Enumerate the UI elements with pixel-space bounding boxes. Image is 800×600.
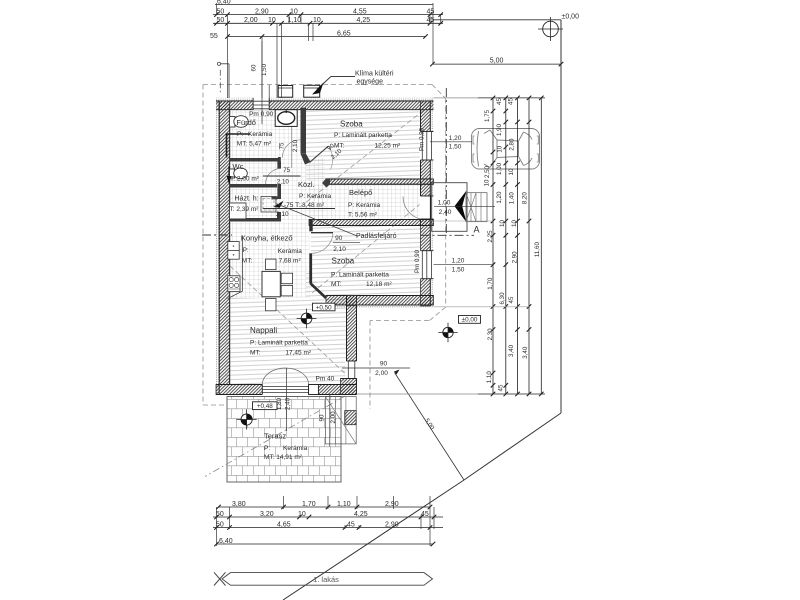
svg-text:MT:: MT: bbox=[331, 281, 342, 288]
svg-text:90: 90 bbox=[380, 361, 388, 368]
terrace paving bbox=[227, 397, 341, 483]
room floor Furdo tile bbox=[226, 108, 301, 159]
gray connector lines right chain bbox=[434, 97, 479, 99]
kitchen fridge and sink unit bbox=[228, 242, 239, 251]
room floor Wc tile bbox=[226, 162, 278, 185]
top left L-shaped leader with circle bbox=[221, 63, 230, 65]
entrance steps bbox=[466, 193, 487, 222]
svg-text:2,40: 2,40 bbox=[439, 209, 452, 216]
svg-text:2,10: 2,10 bbox=[333, 246, 346, 253]
bath block right wall segment hazt bbox=[277, 184, 281, 199]
padlasfeljaro arrowhead at hazt door bbox=[274, 201, 284, 208]
right dim chain verticals bbox=[492, 98, 494, 394]
svg-text:11,60: 11,60 bbox=[534, 242, 541, 258]
svg-text:2,90: 2,90 bbox=[511, 251, 518, 264]
svg-text:MT:: MT: bbox=[334, 143, 345, 150]
section line A left stub bbox=[202, 234, 232, 236]
svg-text:Klíma kültéri: Klíma kültéri bbox=[355, 71, 394, 78]
svg-text:Pm 0,90: Pm 0,90 bbox=[414, 249, 421, 273]
szoba2 door arc bbox=[312, 234, 334, 254]
elevation box +0,48 bbox=[253, 402, 278, 410]
svg-text:10: 10 bbox=[508, 168, 515, 175]
svg-text:Fürdő: Fürdő bbox=[236, 118, 256, 127]
dining table bbox=[262, 271, 280, 296]
right wall insulation dotted bbox=[430, 98, 433, 306]
wall belepo bottom / kozl bottom bbox=[309, 220, 434, 226]
svg-text:17,45 m²: 17,45 m² bbox=[285, 349, 311, 356]
szoba1 door jamb flare bbox=[301, 154, 311, 165]
plot boundary diagonal 2 bbox=[283, 480, 464, 600]
eaves dashed bottom-left stub bbox=[203, 404, 226, 406]
svg-text:1,75: 1,75 bbox=[484, 109, 491, 122]
svg-text:1,40: 1,40 bbox=[509, 192, 516, 205]
wc door arc bbox=[266, 169, 282, 185]
nappali bottom wall masonry bbox=[216, 385, 357, 395]
svg-text:50: 50 bbox=[217, 17, 225, 24]
szoba2 door leaf horizontal bbox=[311, 232, 333, 234]
bottom row1 extension ticks up bbox=[283, 496, 285, 509]
bottom dim row2 bbox=[213, 516, 443, 518]
svg-text:2,00: 2,00 bbox=[375, 370, 388, 377]
svg-text:1,70: 1,70 bbox=[487, 277, 494, 290]
svg-text:MT: 5,47 m²: MT: 5,47 m² bbox=[237, 141, 272, 148]
svg-text:P: Laminált parketta: P: Laminált parketta bbox=[334, 132, 392, 139]
wall furdo-szoba1 bbox=[301, 108, 307, 154]
svg-text:1,20: 1,20 bbox=[496, 191, 503, 204]
svg-text:P:: P: bbox=[264, 445, 270, 452]
svg-text:45: 45 bbox=[347, 521, 355, 528]
room floor Szoba2 parquet bbox=[311, 226, 421, 296]
svg-text:45: 45 bbox=[508, 296, 515, 303]
svg-text:MT:: MT: bbox=[250, 349, 261, 356]
kitchen counter edge bbox=[228, 236, 243, 299]
hazt washing machine dashed bbox=[261, 197, 276, 213]
bottom dim row1 bbox=[218, 506, 430, 508]
klima outdoor units bbox=[278, 86, 293, 98]
svg-text:Házt. h:: Házt. h: bbox=[235, 196, 259, 203]
szoba1 window glyph bbox=[421, 131, 434, 133]
svg-text:2,90: 2,90 bbox=[255, 8, 269, 15]
section line A vertical bbox=[445, 88, 447, 235]
svg-text:6,65: 6,65 bbox=[337, 31, 351, 38]
svg-text:4,65: 4,65 bbox=[277, 521, 291, 528]
svg-text:5,00: 5,00 bbox=[490, 57, 504, 64]
svg-text:±0,00: ±0,00 bbox=[462, 317, 478, 324]
chair top bbox=[266, 259, 277, 270]
eaves dashed bottom of szoba2 bbox=[370, 320, 429, 322]
svg-text:1,80: 1,80 bbox=[276, 397, 283, 410]
svg-text:Nappali: Nappali bbox=[250, 326, 277, 335]
bottom dim row3 bbox=[213, 527, 443, 529]
svg-text:12,25 m²: 12,25 m² bbox=[375, 143, 401, 150]
szoba2 window gap in right wall bbox=[420, 251, 435, 279]
eaves dashed chamfer top-right bbox=[432, 85, 446, 99]
svg-text:1,10: 1,10 bbox=[337, 501, 351, 508]
room floor Belepo tile bbox=[309, 183, 421, 220]
svg-text:±0,00: ±0,00 bbox=[562, 14, 580, 21]
svg-text:75: 75 bbox=[283, 167, 290, 174]
top dim row1 bbox=[213, 14, 443, 16]
top wall insulation dotted strip bbox=[216, 98, 434, 101]
chair right upper bbox=[281, 273, 292, 284]
furdo door jamb end cap bbox=[278, 157, 281, 166]
furdo bathtub outline bbox=[227, 134, 251, 158]
elevation marker plusminus 0,00 bbox=[443, 327, 453, 337]
svg-text:Pm 0,90: Pm 0,90 bbox=[249, 111, 274, 118]
svg-text:3,40: 3,40 bbox=[508, 344, 515, 357]
svg-text:2,30: 2,30 bbox=[487, 328, 494, 341]
svg-text:2,25: 2,25 bbox=[487, 230, 494, 243]
car top view bbox=[472, 129, 540, 170]
svg-text:Konyha, étkező: Konyha, étkező bbox=[241, 233, 293, 242]
svg-text:1,70: 1,70 bbox=[302, 501, 316, 508]
french door leaves arcs bbox=[262, 368, 285, 385]
svg-text:2,10: 2,10 bbox=[292, 139, 299, 152]
svg-text:Kerámia: Kerámia bbox=[278, 248, 303, 255]
plot boundary vertical right bbox=[560, 20, 562, 413]
svg-text:Wc: Wc bbox=[233, 162, 244, 171]
svg-text:55: 55 bbox=[210, 33, 218, 40]
svg-text:10: 10 bbox=[313, 17, 321, 24]
left wall masonry bbox=[219, 101, 230, 385]
svg-text:4,25: 4,25 bbox=[357, 17, 371, 24]
bottom dim row4 6,40 bbox=[217, 543, 434, 545]
room floor Szoba1 parquet bbox=[306, 108, 421, 180]
svg-text:10: 10 bbox=[496, 145, 503, 152]
right chain ticks bbox=[491, 96, 496, 101]
SE steps hatched block bbox=[345, 411, 357, 425]
wall hazt bottom bbox=[230, 218, 277, 222]
svg-text:2,00: 2,00 bbox=[330, 411, 337, 424]
svg-text:P:: P: bbox=[243, 247, 249, 254]
svg-text:-75 T: 3,48 m²: -75 T: 3,48 m² bbox=[284, 202, 325, 209]
top wall window gap bbox=[253, 98, 269, 111]
svg-text:2,80: 2,80 bbox=[509, 138, 516, 151]
svg-text:45: 45 bbox=[497, 384, 504, 391]
svg-text:Pm 0,90: Pm 0,90 bbox=[419, 127, 426, 151]
top wall window glyph bbox=[252, 98, 254, 110]
wall hazt bottom right jamb bbox=[277, 212, 281, 222]
svg-text:Közl.: Közl. bbox=[298, 180, 315, 189]
chair right lower bbox=[281, 285, 292, 296]
svg-text:8,20: 8,20 bbox=[521, 192, 528, 205]
szoba2 bottom wall insulation dotted bbox=[330, 305, 434, 308]
entrance door gap in right wall bbox=[420, 196, 435, 219]
wc door dim line bbox=[263, 175, 301, 177]
furdo washbasin cabinet bbox=[275, 110, 297, 127]
svg-text:90: 90 bbox=[335, 235, 343, 242]
svg-text:2,40: 2,40 bbox=[285, 397, 292, 410]
svg-text:50: 50 bbox=[217, 8, 225, 15]
terrace dash-dot diagonal bbox=[205, 396, 345, 477]
right dim chain bottom tick row bbox=[478, 393, 545, 395]
wall furdo-wc bbox=[230, 158, 279, 162]
svg-text:T: 2,39 m²: T: 2,39 m² bbox=[230, 206, 260, 213]
furdo door arc bbox=[282, 140, 300, 158]
svg-text:2,10: 2,10 bbox=[276, 211, 289, 218]
left wall insulation dotted strip bbox=[216, 101, 219, 395]
svg-text:2,00: 2,00 bbox=[244, 17, 258, 24]
white pier in bottom wall bbox=[309, 385, 319, 395]
hazt door dim line bbox=[263, 208, 335, 210]
svg-text:Szoba: Szoba bbox=[340, 120, 363, 129]
top dim row3 bbox=[228, 36, 426, 38]
nappali SE corner wall block bbox=[341, 379, 357, 395]
SE steps outline bbox=[325, 397, 356, 444]
svg-text:MT: 14,91 m²: MT: 14,91 m² bbox=[264, 454, 303, 461]
room floor Nappali parquet bbox=[226, 268, 347, 385]
svg-text:10: 10 bbox=[268, 17, 276, 24]
kitchen stove bbox=[228, 276, 240, 292]
szoba2 left wall segment below door bbox=[309, 253, 312, 283]
top dim row2 bbox=[213, 22, 443, 24]
svg-text:12,18 m²: 12,18 m² bbox=[366, 281, 392, 288]
svg-text:2,90: 2,90 bbox=[385, 521, 399, 528]
room floor Kozl tile bbox=[277, 159, 325, 221]
plot line top bbox=[432, 19, 561, 21]
svg-text:10: 10 bbox=[484, 179, 491, 186]
svg-text:7,68 m²: 7,68 m² bbox=[279, 257, 302, 264]
svg-text:Kerámia: Kerámia bbox=[248, 131, 273, 138]
french door gap in bottom wall bbox=[262, 384, 308, 396]
szoba2 window glyph bbox=[421, 250, 434, 252]
nappali back door gap bbox=[346, 361, 358, 379]
roof dashed diagonal szoba1 bbox=[300, 103, 433, 207]
section line A horizontal bbox=[421, 234, 475, 236]
corner block szoba2 wall to nappali wall bbox=[347, 296, 357, 306]
svg-text:1,10: 1,10 bbox=[288, 17, 302, 24]
right wall masonry upper bbox=[421, 101, 431, 306]
eaves dashed right of nappali bbox=[369, 321, 371, 410]
wc toilet bbox=[230, 169, 235, 178]
svg-text:+0,48: +0,48 bbox=[257, 403, 273, 410]
svg-text:T: 2,00 m²: T: 2,00 m² bbox=[230, 175, 260, 182]
svg-text:Terasz: Terasz bbox=[264, 431, 286, 440]
svg-text:2,10: 2,10 bbox=[277, 178, 290, 185]
svg-text:10: 10 bbox=[290, 8, 298, 15]
svg-text:A: A bbox=[474, 225, 480, 235]
hazt cupboard bbox=[230, 203, 247, 219]
wall kozl-belepo flared jamb bbox=[322, 179, 330, 188]
wall wc-hazt bbox=[230, 184, 277, 188]
svg-text:Szoba: Szoba bbox=[332, 257, 355, 266]
down arrow at wc wall bbox=[228, 166, 230, 177]
roof dashed diagonal nappali bbox=[230, 266, 352, 380]
right dim chain top tick row bbox=[478, 97, 545, 99]
svg-text:+0,50: +0,50 bbox=[316, 304, 332, 311]
svg-text:1,90: 1,90 bbox=[496, 123, 503, 136]
wall kozl-belepo bbox=[327, 179, 434, 184]
svg-text:3,40: 3,40 bbox=[522, 346, 529, 359]
svg-text:P: Kerámia: P: Kerámia bbox=[348, 202, 381, 209]
svg-text:P: Laminált parketta: P: Laminált parketta bbox=[250, 339, 308, 346]
chair bottom bbox=[266, 299, 277, 311]
svg-text:T: 5,56 m²: T: 5,56 m² bbox=[348, 211, 378, 218]
hazt wall end cap bbox=[272, 196, 278, 199]
dim 5,00 line bbox=[432, 63, 561, 65]
eaves dashed right bbox=[445, 99, 447, 308]
svg-text:2,50: 2,50 bbox=[484, 165, 491, 178]
szoba1 door leaf diagonal bbox=[310, 146, 329, 163]
svg-text:P: Laminált parketta: P: Laminált parketta bbox=[331, 272, 389, 279]
svg-text:60: 60 bbox=[251, 64, 258, 71]
furdo door extension line bbox=[291, 127, 293, 169]
belepo bottom wall left jamb bbox=[309, 220, 312, 232]
nappali right wall masonry bbox=[347, 296, 357, 362]
svg-text:90: 90 bbox=[319, 414, 326, 421]
svg-text:50: 50 bbox=[216, 511, 224, 518]
left dash-dot stub bbox=[219, 70, 221, 94]
room floor Hazt tile bbox=[226, 188, 278, 219]
top wall masonry bbox=[216, 101, 434, 110]
svg-text:1,20: 1,20 bbox=[449, 135, 462, 142]
svg-text:1,20: 1,20 bbox=[452, 258, 465, 265]
svg-text:45: 45 bbox=[421, 511, 429, 518]
svg-text:10: 10 bbox=[298, 511, 306, 518]
svg-text:6,30: 6,30 bbox=[499, 292, 506, 305]
svg-text:3,80: 3,80 bbox=[232, 501, 246, 508]
svg-text:Kerámia: Kerámia bbox=[283, 445, 308, 452]
svg-text:10: 10 bbox=[499, 220, 506, 227]
elevation box 0,00 bbox=[459, 316, 481, 324]
svg-text:45: 45 bbox=[508, 98, 515, 105]
bath block right wall segment wc bbox=[277, 162, 281, 169]
svg-text:1,50: 1,50 bbox=[449, 143, 462, 150]
svg-text:MT:: MT: bbox=[242, 257, 253, 264]
svg-text:50: 50 bbox=[216, 521, 224, 528]
entrance big black arrow bbox=[455, 191, 467, 223]
svg-text:Belépő: Belépő bbox=[349, 188, 372, 197]
banner X mark bbox=[214, 572, 226, 585]
plot boundary diagonal 1 bbox=[464, 413, 561, 480]
top dims extension lines bbox=[216, 3, 218, 15]
svg-text:4,55: 4,55 bbox=[353, 8, 367, 15]
eaves dashed chamfer south-east bbox=[429, 307, 446, 321]
entrance porch outline bbox=[432, 183, 467, 232]
room floor Konyha tile bbox=[226, 222, 310, 298]
top dim row 6,40 partial bbox=[215, 4, 433, 6]
svg-text:1,50: 1,50 bbox=[452, 267, 465, 274]
bottom extension verticals bbox=[216, 507, 218, 546]
elevation marker nappali bbox=[301, 313, 312, 324]
svg-text:4,25: 4,25 bbox=[354, 511, 368, 518]
survey circle top right bbox=[543, 21, 559, 37]
roof dashed diagonal belepo bbox=[312, 195, 431, 293]
svg-text:1. lakás: 1. lakás bbox=[313, 575, 339, 584]
svg-text:1,00: 1,00 bbox=[438, 199, 451, 206]
svg-text:1,00: 1,00 bbox=[496, 162, 503, 175]
svg-text:Padlásfeljáró: Padlásfeljáró bbox=[356, 233, 397, 240]
svg-text:6,40: 6,40 bbox=[217, 0, 231, 6]
svg-text:Pm 40: Pm 40 bbox=[316, 376, 335, 383]
entrance door leaf and arc bbox=[430, 196, 432, 219]
svg-text:P:: P: bbox=[237, 131, 243, 138]
eaves dashed outline top bbox=[203, 84, 432, 86]
banner 1. lakas hexagon bbox=[222, 573, 433, 586]
svg-text:P: Kerámia: P: Kerámia bbox=[299, 193, 332, 200]
svg-text:1,10: 1,10 bbox=[486, 371, 493, 384]
klima leader arrow bbox=[331, 75, 355, 77]
svg-text:10: 10 bbox=[511, 220, 518, 227]
szoba2 chamfer wall bbox=[311, 284, 326, 299]
furdo toilet bbox=[230, 117, 236, 128]
szoba1 window gap in right wall bbox=[420, 132, 435, 161]
elevation box +0,50 bbox=[313, 303, 336, 311]
svg-text:egysége: egysége bbox=[357, 78, 384, 85]
svg-text:2,90: 2,90 bbox=[385, 501, 399, 508]
svg-text:6,40: 6,40 bbox=[219, 538, 233, 545]
eaves dashed left bbox=[202, 85, 204, 406]
svg-text:3,20: 3,20 bbox=[260, 511, 274, 518]
dim diagonal 5,00 line bbox=[395, 373, 465, 481]
elevation marker terasz bbox=[241, 414, 252, 425]
svg-text:45: 45 bbox=[496, 98, 503, 105]
szoba2 bottom exterior wall bbox=[326, 296, 434, 306]
svg-text:75: 75 bbox=[279, 142, 286, 149]
